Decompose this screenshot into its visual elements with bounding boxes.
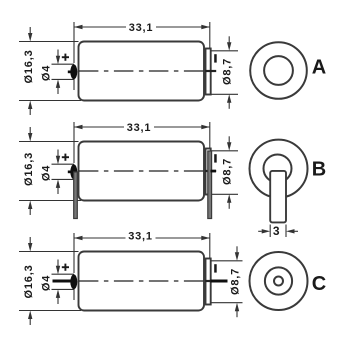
svg-text:33,1: 33,1 — [127, 122, 152, 134]
svg-text:Ø16,3: Ø16,3 — [23, 152, 35, 186]
svg-text:Ø16,3: Ø16,3 — [23, 50, 35, 84]
svg-text:Ø16,3: Ø16,3 — [23, 265, 35, 299]
svg-text:3: 3 — [273, 224, 280, 238]
svg-text:Ø8,7: Ø8,7 — [222, 158, 234, 185]
svg-text:C: C — [312, 273, 326, 295]
svg-text:Ø4: Ø4 — [41, 275, 53, 291]
svg-text:A: A — [312, 57, 326, 79]
svg-text:B: B — [312, 159, 326, 181]
svg-text:33,1: 33,1 — [129, 22, 154, 34]
svg-text:Ø4: Ø4 — [41, 65, 53, 81]
svg-text:33,1: 33,1 — [128, 231, 153, 243]
svg-text:Ø4: Ø4 — [41, 165, 53, 181]
svg-text:Ø8,7: Ø8,7 — [222, 58, 234, 85]
svg-text:Ø8,7: Ø8,7 — [230, 268, 242, 295]
